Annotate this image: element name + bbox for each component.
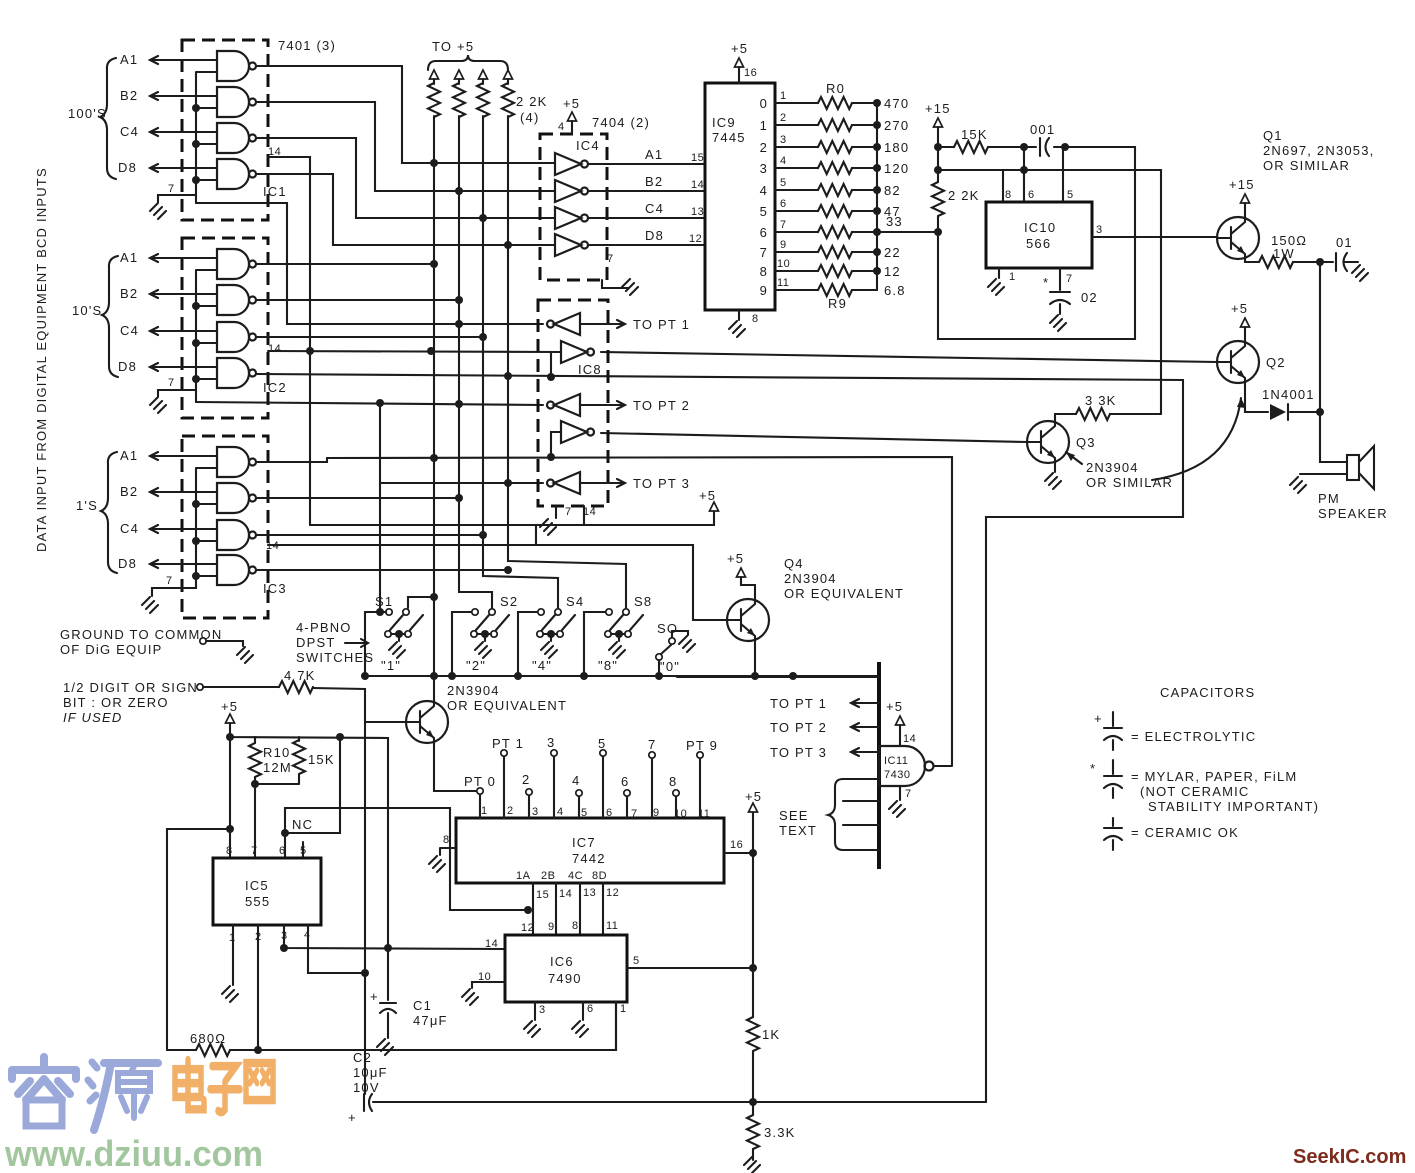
svg-text:7: 7 xyxy=(905,788,912,800)
svg-text:3: 3 xyxy=(780,134,787,146)
svg-text:= CERAMIC OK: = CERAMIC OK xyxy=(1131,825,1239,840)
svg-text:TEXT: TEXT xyxy=(779,823,817,838)
svg-text:DPST: DPST xyxy=(296,635,335,650)
svg-text:8: 8 xyxy=(1005,189,1012,201)
svg-text:+5: +5 xyxy=(221,699,238,714)
svg-text:TO PT 3: TO PT 3 xyxy=(770,745,827,760)
svg-text:10: 10 xyxy=(777,258,790,270)
svg-text:4: 4 xyxy=(557,806,564,818)
svg-text:"2": "2" xyxy=(466,658,486,673)
svg-text:2 2K: 2 2K xyxy=(948,188,980,203)
svg-text:14: 14 xyxy=(691,179,704,191)
svg-text:4 7K: 4 7K xyxy=(284,668,316,683)
svg-text:8D: 8D xyxy=(592,870,607,882)
svg-text:2N697, 2N3053,: 2N697, 2N3053, xyxy=(1263,143,1374,158)
svg-text:+15: +15 xyxy=(925,101,951,116)
svg-text:Q1: Q1 xyxy=(1263,128,1283,143)
svg-text:2: 2 xyxy=(780,112,787,124)
svg-text:OR EQUIVALENT: OR EQUIVALENT xyxy=(784,586,904,601)
svg-text:2N3904: 2N3904 xyxy=(1086,460,1139,475)
svg-text:TO +5: TO +5 xyxy=(432,39,474,54)
svg-text:"8": "8" xyxy=(598,658,618,673)
svg-text:*: * xyxy=(1043,275,1049,290)
svg-text:5: 5 xyxy=(598,736,606,751)
svg-text:1A: 1A xyxy=(516,870,531,882)
svg-text:TO PT 1: TO PT 1 xyxy=(770,696,827,711)
svg-text:C4: C4 xyxy=(120,124,139,139)
svg-text:D8: D8 xyxy=(118,359,137,374)
svg-text:IC6: IC6 xyxy=(550,954,574,969)
svg-text:PT 9: PT 9 xyxy=(686,738,718,753)
svg-text:A1: A1 xyxy=(120,52,138,67)
svg-text:10: 10 xyxy=(478,971,491,983)
svg-text:+5: +5 xyxy=(699,488,716,503)
svg-text:SWITCHES: SWITCHES xyxy=(296,650,374,665)
svg-text:10'S: 10'S xyxy=(72,303,102,318)
svg-text:3: 3 xyxy=(760,161,768,176)
svg-text:A1: A1 xyxy=(120,448,138,463)
svg-text:DATA INPUT FROM DIGITAL EQUIPM: DATA INPUT FROM DIGITAL EQUIPMENT BCD IN… xyxy=(34,167,49,552)
svg-text:10V: 10V xyxy=(353,1080,380,1095)
svg-text:R10: R10 xyxy=(263,745,290,760)
svg-text:7: 7 xyxy=(166,575,173,587)
svg-text:4-PBNO: 4-PBNO xyxy=(296,620,352,635)
svg-text:S2: S2 xyxy=(500,594,518,609)
svg-text:02: 02 xyxy=(1081,290,1098,305)
svg-text:6.8: 6.8 xyxy=(884,283,906,298)
svg-text:+5: +5 xyxy=(731,41,748,56)
svg-text:1N4001: 1N4001 xyxy=(1262,387,1315,402)
svg-text:IC10: IC10 xyxy=(1024,220,1056,235)
svg-text:SO: SO xyxy=(657,621,678,636)
svg-text:+5: +5 xyxy=(563,96,580,111)
svg-text:Q3: Q3 xyxy=(1076,435,1096,450)
svg-text:STABILITY IMPORTANT): STABILITY IMPORTANT) xyxy=(1148,799,1319,814)
svg-text:SEE: SEE xyxy=(779,808,809,823)
svg-text:10μF: 10μF xyxy=(353,1065,388,1080)
svg-text:470: 470 xyxy=(884,96,909,111)
svg-text:PT 0: PT 0 xyxy=(464,774,496,789)
svg-text:1W: 1W xyxy=(1273,246,1295,261)
svg-text:1'S: 1'S xyxy=(76,498,98,513)
svg-text:120: 120 xyxy=(884,161,909,176)
svg-text:15: 15 xyxy=(536,889,549,901)
svg-text:7: 7 xyxy=(631,808,638,820)
svg-text:6: 6 xyxy=(587,1003,594,1015)
svg-text:3: 3 xyxy=(532,806,539,818)
svg-text:4C: 4C xyxy=(568,870,583,882)
svg-text:7: 7 xyxy=(1066,273,1073,285)
svg-text:TO PT 2: TO PT 2 xyxy=(633,398,690,413)
svg-text:Q2: Q2 xyxy=(1266,355,1286,370)
svg-text:(NOT CERAMIC: (NOT CERAMIC xyxy=(1140,784,1250,799)
svg-text:12M: 12M xyxy=(263,760,292,775)
svg-text:TO PT 3: TO PT 3 xyxy=(633,476,690,491)
svg-text:6: 6 xyxy=(1028,189,1035,201)
svg-text:12: 12 xyxy=(606,887,619,899)
svg-text:IC4: IC4 xyxy=(576,138,600,153)
svg-text:IC3: IC3 xyxy=(263,581,287,596)
svg-text:8: 8 xyxy=(669,774,677,789)
svg-text:D8: D8 xyxy=(118,160,137,175)
svg-text:7: 7 xyxy=(607,253,614,265)
svg-text:6: 6 xyxy=(760,225,768,240)
svg-text:5: 5 xyxy=(760,204,768,219)
svg-text:22: 22 xyxy=(884,245,901,260)
svg-text:+5: +5 xyxy=(1231,301,1248,316)
svg-text:7: 7 xyxy=(251,845,258,857)
svg-text:5: 5 xyxy=(300,845,307,857)
svg-text:+15: +15 xyxy=(1229,177,1255,192)
svg-text:6: 6 xyxy=(279,845,286,857)
svg-text:8: 8 xyxy=(572,920,579,932)
svg-text:PT 1: PT 1 xyxy=(492,736,524,751)
svg-text:6: 6 xyxy=(780,198,787,210)
svg-text:+5: +5 xyxy=(745,789,762,804)
svg-text:8: 8 xyxy=(226,845,233,857)
svg-text:82: 82 xyxy=(884,183,901,198)
svg-text:11: 11 xyxy=(606,920,618,932)
svg-text:= MYLAR, PAPER, FiLM: = MYLAR, PAPER, FiLM xyxy=(1131,769,1297,784)
svg-text:www.dziuu.com: www.dziuu.com xyxy=(4,1133,263,1173)
svg-text:4: 4 xyxy=(558,121,565,133)
svg-text:1: 1 xyxy=(620,1003,627,1015)
svg-text:12: 12 xyxy=(521,922,534,934)
svg-text:4: 4 xyxy=(760,183,768,198)
svg-text:15K: 15K xyxy=(961,127,988,142)
svg-text:D8: D8 xyxy=(645,228,664,243)
svg-text:+5: +5 xyxy=(886,699,903,714)
svg-text:566: 566 xyxy=(1026,236,1051,251)
svg-text:SeekIC.com: SeekIC.com xyxy=(1293,1146,1406,1168)
svg-text:15: 15 xyxy=(691,152,704,164)
svg-text:CAPACITORS: CAPACITORS xyxy=(1160,685,1255,700)
svg-text:9: 9 xyxy=(548,921,555,933)
svg-text:C4: C4 xyxy=(120,521,139,536)
svg-text:D8: D8 xyxy=(118,556,137,571)
svg-text:9: 9 xyxy=(780,239,787,251)
svg-text:S4: S4 xyxy=(566,594,584,609)
svg-text:33: 33 xyxy=(886,214,903,229)
svg-text:7: 7 xyxy=(168,183,175,195)
svg-text:C4: C4 xyxy=(645,201,664,216)
svg-text:= ELECTROLYTIC: = ELECTROLYTIC xyxy=(1131,729,1256,744)
svg-text:2: 2 xyxy=(507,805,514,817)
svg-text:12: 12 xyxy=(884,264,901,279)
svg-text:10: 10 xyxy=(674,808,687,820)
svg-text:3: 3 xyxy=(539,1004,546,1016)
svg-text:15K: 15K xyxy=(308,752,335,767)
svg-text:B2: B2 xyxy=(120,286,138,301)
svg-text:0: 0 xyxy=(760,96,768,111)
svg-text:OR SIMILAR: OR SIMILAR xyxy=(1086,475,1173,490)
svg-text:12: 12 xyxy=(689,233,702,245)
svg-text:IC5: IC5 xyxy=(245,878,269,893)
svg-text:"4": "4" xyxy=(532,658,552,673)
svg-text:2N3904: 2N3904 xyxy=(447,683,500,698)
svg-text:180: 180 xyxy=(884,140,909,155)
svg-text:6: 6 xyxy=(606,807,613,819)
svg-text:1/2 DIGIT OR SIGN: 1/2 DIGIT OR SIGN xyxy=(63,680,198,695)
svg-text:4: 4 xyxy=(780,155,787,167)
svg-text:5: 5 xyxy=(780,177,787,189)
svg-text:2: 2 xyxy=(760,140,768,155)
svg-text:7401 (3): 7401 (3) xyxy=(278,38,336,53)
svg-text:8: 8 xyxy=(752,313,759,325)
svg-text:(4): (4) xyxy=(520,110,540,125)
svg-text:OR EQUIVALENT: OR EQUIVALENT xyxy=(447,698,567,713)
svg-text:+: + xyxy=(348,1110,357,1125)
svg-text:*: * xyxy=(1090,761,1096,776)
svg-text:IC2: IC2 xyxy=(263,380,287,395)
svg-text:2: 2 xyxy=(522,772,530,787)
svg-text:C1: C1 xyxy=(413,998,432,1013)
svg-text:7: 7 xyxy=(648,737,656,752)
svg-text:R0: R0 xyxy=(826,81,845,96)
svg-text:S1: S1 xyxy=(375,594,393,609)
svg-text:IF USED: IF USED xyxy=(63,710,122,725)
svg-text:2N3904: 2N3904 xyxy=(784,571,837,586)
svg-text:7430: 7430 xyxy=(884,769,910,781)
svg-text:B2: B2 xyxy=(645,174,663,189)
svg-text:TO PT 1: TO PT 1 xyxy=(633,317,690,332)
svg-text:+: + xyxy=(1094,711,1103,726)
svg-text:PM: PM xyxy=(1318,491,1340,506)
svg-text:1: 1 xyxy=(1009,271,1016,283)
svg-text:7445: 7445 xyxy=(712,130,746,145)
svg-text:14: 14 xyxy=(485,938,498,950)
svg-text:S8: S8 xyxy=(634,594,652,609)
svg-text:7404 (2): 7404 (2) xyxy=(592,115,650,130)
svg-text:TO PT 2: TO PT 2 xyxy=(770,720,827,735)
svg-text:270: 270 xyxy=(884,118,909,133)
svg-text:7: 7 xyxy=(168,377,175,389)
svg-text:7442: 7442 xyxy=(572,851,606,866)
svg-text:16: 16 xyxy=(744,67,757,79)
svg-text:3: 3 xyxy=(547,735,555,750)
svg-text:555: 555 xyxy=(245,894,270,909)
svg-text:5: 5 xyxy=(1067,189,1074,201)
svg-text:2B: 2B xyxy=(541,870,555,882)
svg-text:11: 11 xyxy=(698,808,710,820)
svg-text:C2: C2 xyxy=(353,1050,372,1065)
svg-text:14: 14 xyxy=(903,733,916,745)
svg-text:OF DiG EQUIP: OF DiG EQUIP xyxy=(60,642,163,657)
svg-text:5: 5 xyxy=(633,955,640,967)
svg-text:"1": "1" xyxy=(381,658,401,673)
svg-text:IC11: IC11 xyxy=(884,755,908,767)
svg-text:+: + xyxy=(370,989,379,1004)
svg-text:IC8: IC8 xyxy=(578,362,602,377)
svg-text:7: 7 xyxy=(760,245,768,260)
svg-text:5: 5 xyxy=(581,807,588,819)
svg-text:IC1: IC1 xyxy=(263,184,287,199)
svg-text:1: 1 xyxy=(780,90,787,102)
svg-text:A1: A1 xyxy=(120,250,138,265)
svg-text:14: 14 xyxy=(268,343,281,355)
svg-text:8: 8 xyxy=(443,834,450,846)
svg-text:BIT : OR ZERO: BIT : OR ZERO xyxy=(63,695,169,710)
svg-text:8: 8 xyxy=(760,264,768,279)
svg-text:13: 13 xyxy=(583,887,596,899)
svg-text:Q4: Q4 xyxy=(784,556,804,571)
svg-text:B2: B2 xyxy=(120,484,138,499)
svg-text:3 3K: 3 3K xyxy=(1085,393,1117,408)
svg-text:9: 9 xyxy=(653,807,660,819)
svg-text:3.3K: 3.3K xyxy=(764,1125,796,1140)
svg-text:IC7: IC7 xyxy=(572,835,596,850)
svg-text:1: 1 xyxy=(760,118,768,133)
svg-text:680Ω: 680Ω xyxy=(190,1031,226,1046)
svg-text:"0": "0" xyxy=(660,659,680,674)
svg-text:7490: 7490 xyxy=(548,971,582,986)
svg-text:4: 4 xyxy=(572,773,580,788)
svg-text:2 2K: 2 2K xyxy=(516,94,548,109)
svg-text:1: 1 xyxy=(481,805,488,817)
svg-text:14: 14 xyxy=(559,888,572,900)
svg-text:7: 7 xyxy=(780,219,787,231)
svg-text:NC: NC xyxy=(292,817,313,832)
svg-text:47μF: 47μF xyxy=(413,1013,448,1028)
svg-text:16: 16 xyxy=(730,839,743,851)
svg-text:+5: +5 xyxy=(727,551,744,566)
svg-text:13: 13 xyxy=(691,206,704,218)
svg-text:9: 9 xyxy=(760,283,768,298)
svg-text:1K: 1K xyxy=(762,1027,780,1042)
svg-text:11: 11 xyxy=(777,277,789,289)
svg-text:100'S: 100'S xyxy=(68,106,107,121)
svg-text:OR SIMILAR: OR SIMILAR xyxy=(1263,158,1350,173)
svg-text:C4: C4 xyxy=(120,323,139,338)
svg-text:6: 6 xyxy=(621,774,629,789)
svg-text:B2: B2 xyxy=(120,88,138,103)
svg-text:SPEAKER: SPEAKER xyxy=(1318,506,1388,521)
svg-text:01: 01 xyxy=(1336,235,1353,250)
svg-text:001: 001 xyxy=(1030,122,1055,137)
svg-text:GROUND TO COMMON: GROUND TO COMMON xyxy=(60,627,222,642)
svg-text:R9: R9 xyxy=(828,296,847,311)
svg-text:A1: A1 xyxy=(645,147,663,162)
svg-text:3: 3 xyxy=(1096,224,1103,236)
svg-text:IC9: IC9 xyxy=(712,115,736,130)
svg-text:7: 7 xyxy=(565,506,572,518)
